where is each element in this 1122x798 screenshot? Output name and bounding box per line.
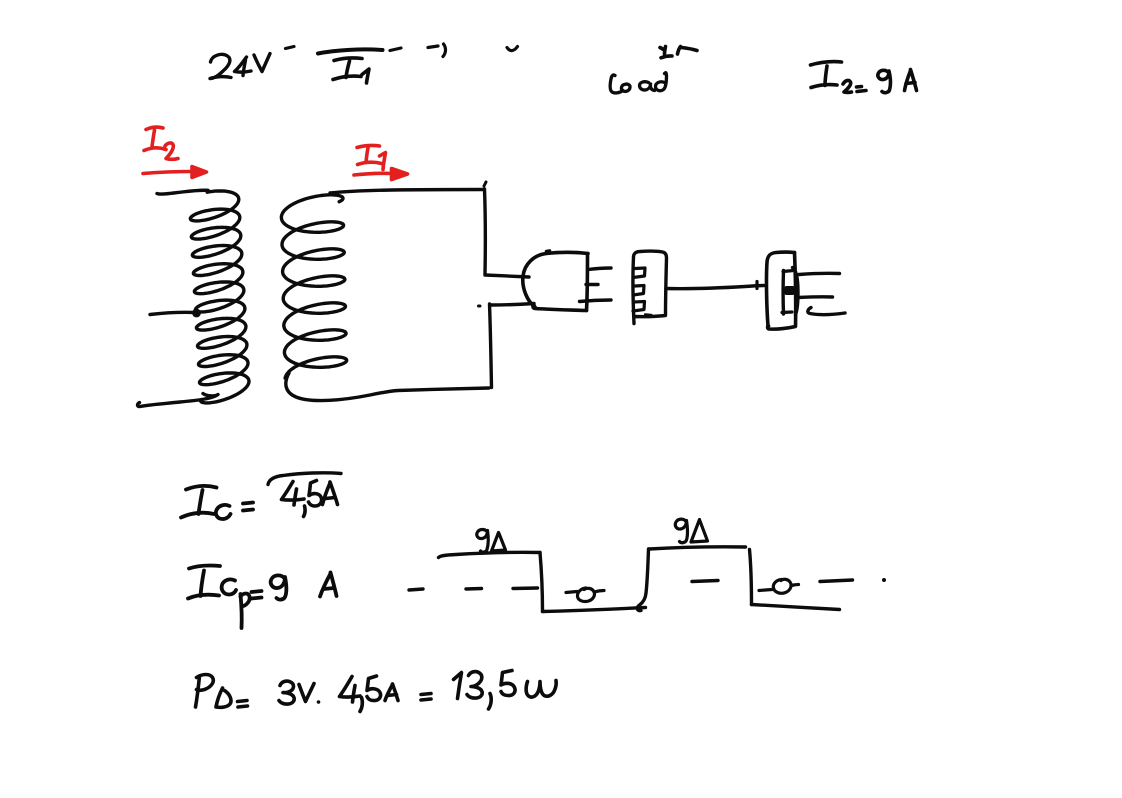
wire U1 output to Q2 gate	[666, 286, 764, 289]
label 0 on low segment 1	[566, 588, 604, 601]
transistor Q2 package outline	[766, 252, 795, 329]
wire down from lower input	[490, 304, 492, 388]
waveform falling edge 2	[750, 550, 752, 605]
small dot near lower wire	[479, 305, 481, 308]
label 9A on pulse 2	[675, 519, 707, 543]
Q2 inner bottom tick	[782, 310, 792, 314]
label Load	[610, 73, 666, 93]
red label I2 with arrow (secondary current)	[143, 127, 207, 177]
label 24V supply voltage	[210, 54, 270, 79]
value 9A (peak)	[271, 573, 337, 600]
label I1 (averaged current)	[333, 58, 369, 83]
value 4,5A	[282, 481, 338, 517]
label 9A on pulse 1	[477, 529, 506, 552]
lead 3 of Q1 (bottom right)	[580, 300, 612, 302]
U1 step notch 1	[634, 268, 646, 278]
wire center tap of L2	[150, 312, 195, 314]
waveform end dot	[882, 578, 886, 582]
lead 1 of Q1 (top right)	[588, 268, 611, 270]
stray dash mark	[286, 47, 295, 49]
cropped label 1A above Load	[660, 47, 697, 58]
U1 step notch 3	[633, 302, 645, 312]
tick at top corner	[484, 182, 486, 186]
wire top lead of L1	[330, 190, 484, 194]
Q2 inner top tick	[783, 271, 794, 272]
transistor Q1 (TO-3 can outline)	[523, 251, 588, 311]
lead 2 of Q2 (middle)	[798, 295, 833, 299]
module U1 outline (stepped block)	[633, 251, 667, 323]
waveform trailing dash	[820, 580, 853, 582]
U1 step notch 2	[634, 286, 645, 296]
red label I1 with arrow (primary current)	[354, 146, 408, 180]
waveform dashed average line	[409, 588, 538, 590]
equation P_D = 3V . 4,5A = 13,5W	[196, 671, 557, 712]
inductor L2 secondary winding (left coil)	[190, 191, 249, 403]
waveform rising edge 2 with hook	[637, 549, 648, 611]
waveform pulse 2 top	[649, 547, 746, 549]
label 0 on low segment 2	[759, 579, 799, 593]
equation Icp = 9A (peak)	[188, 566, 262, 628]
waveform falling edge 1	[540, 553, 543, 612]
inductor L1 primary winding (right coil)	[281, 195, 346, 378]
waveform low segment 2	[752, 605, 840, 610]
label I2 = 9A (top right)	[811, 62, 917, 93]
lead 1 of Q2 (top)	[799, 273, 840, 274]
wire transistor lower input	[490, 304, 534, 306]
Q2 inner vertical bar	[781, 271, 785, 315]
equation I_C = 4,5A (averaged)	[181, 486, 253, 519]
wire bottom lead of L1 (wide bottom loop)	[286, 373, 489, 401]
lead 2 of Q1 (middle)	[586, 283, 598, 286]
Q2 inner right curve	[793, 268, 799, 315]
waveform dash inside pulse 2	[692, 581, 718, 582]
overline over 4,5A	[268, 473, 341, 485]
overline of I1 (top)	[318, 49, 383, 53]
wire stub into transistor upper input	[485, 275, 529, 277]
cropped text marks	[428, 44, 518, 57]
lead 3 of Q2 (bottom) with hook	[808, 308, 845, 315]
Q2 inner filled pellet	[785, 286, 795, 295]
junction dot center tap	[192, 309, 201, 318]
stray dash mark	[390, 48, 401, 51]
waveform low segment 1 (0 level)	[543, 608, 646, 612]
wire top lead of L2	[157, 190, 208, 194]
wire bottom lead of L2	[138, 394, 219, 407]
wire from L1 top down to base node	[483, 189, 487, 274]
waveform pulse 1 top (9A level)	[439, 552, 541, 557]
junction tick on gate wire	[755, 282, 758, 289]
